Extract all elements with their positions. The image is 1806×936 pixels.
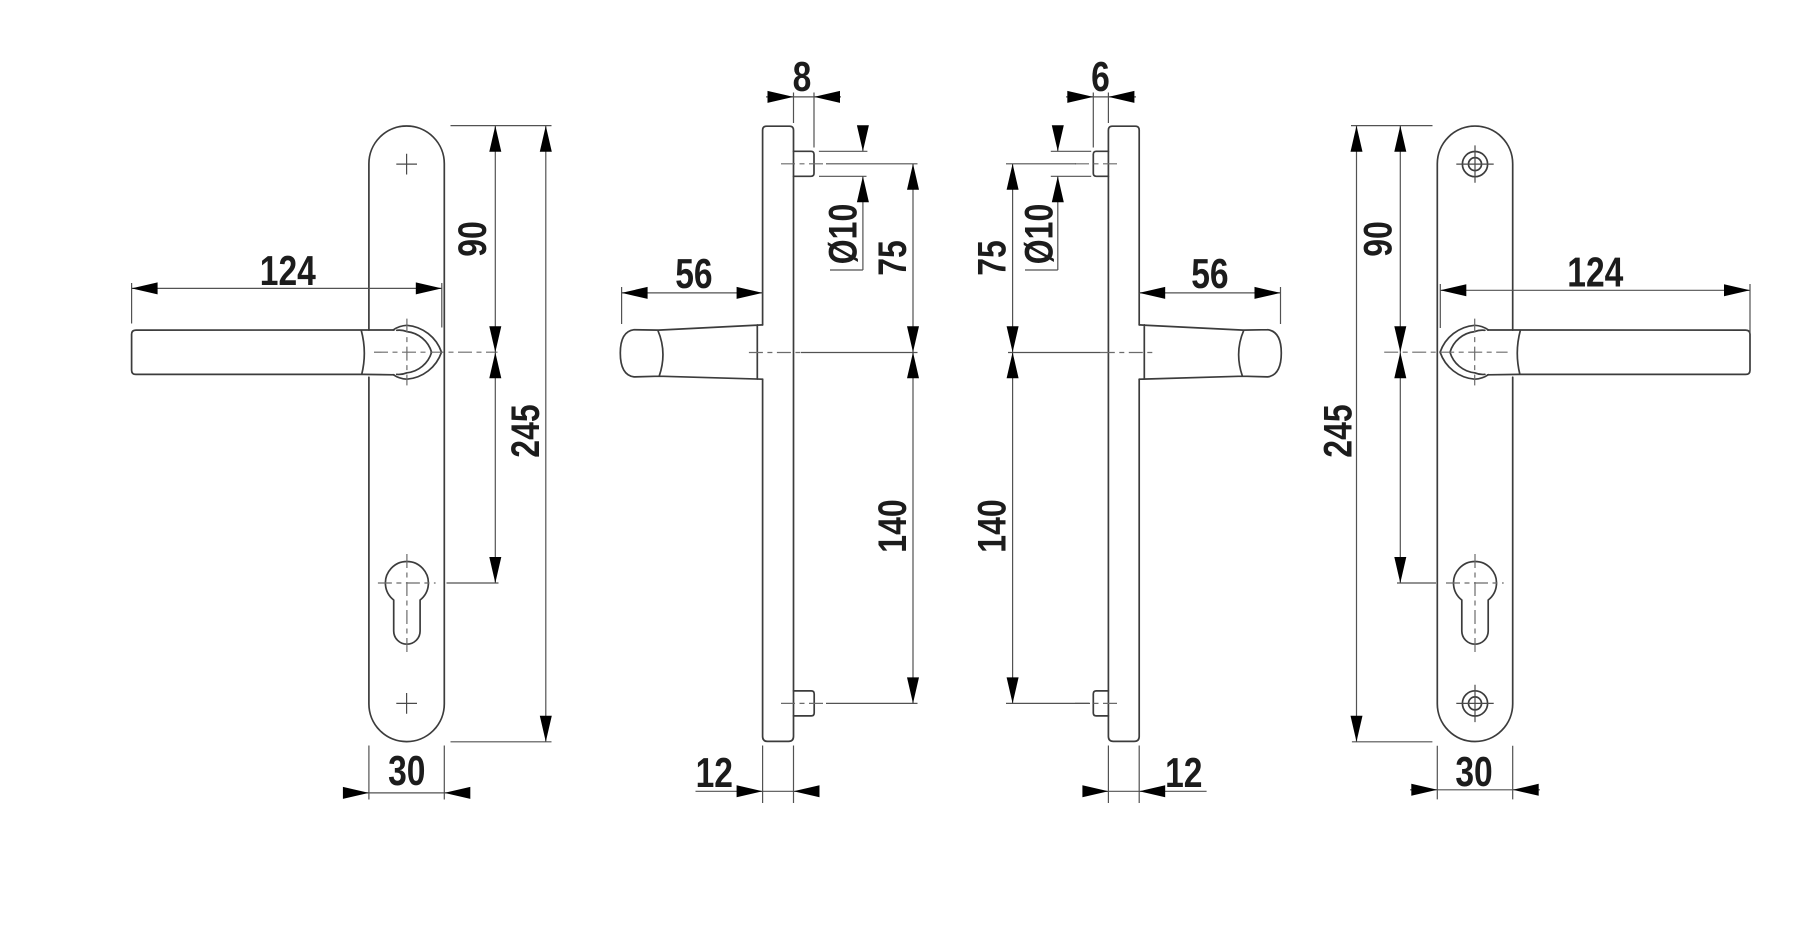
dimension 30 view 1: arrows: [343, 787, 369, 799]
dimension 6 view 3: arrows: [1067, 91, 1093, 103]
dimension 12 view 3: dim line: [1084, 790, 1207, 792]
dimension 90 view 4: arrows: [1394, 126, 1406, 152]
dimension 56 view 3: dim line: [1139, 292, 1280, 294]
keyhole horizontal centerline view 4: [1446, 582, 1504, 584]
keyhole vertical centerline view 4: [1474, 554, 1476, 655]
dimension 8 view 2: dim line: [766, 96, 841, 98]
dimension 12 view 2: arrows: [737, 785, 763, 797]
lower stud connector to 140 dim view 3: [1006, 702, 1090, 704]
dimension diameter 10 view 3: dim line: [1025, 127, 1058, 270]
dimension 90 view 4: top extension line: [1351, 125, 1433, 127]
dimension 56 view 2: extension line: [621, 287, 623, 324]
svg-text:124: 124: [260, 247, 317, 294]
dimension 245 view 1: dim line: [545, 126, 547, 742]
lever handle view 1: [132, 330, 394, 375]
svg-text:90: 90: [451, 221, 495, 257]
dimension 245 view 4: dim line: [1356, 126, 1358, 742]
dimension 245 view 4: bottom extension line: [1352, 741, 1433, 743]
dimension 30 view 1: extension lines: [369, 746, 444, 800]
dimension 90 view 4: keyhole connector line: [1397, 582, 1436, 584]
handle hub outer view 1: [393, 325, 441, 379]
svg-text:56: 56: [675, 250, 712, 297]
dimension 8 view 2: arrows: [768, 91, 794, 103]
keyhole horizontal centerline view 1: [378, 582, 436, 584]
handle hub inner view 1: [397, 330, 432, 374]
lower stud centerline view 3: [1075, 702, 1121, 704]
dimension diameter 10 view 2: arrows: [857, 125, 869, 151]
dimension 12 view 3: arrows: [1082, 785, 1108, 797]
dimension 75 view 3: arrows: [1007, 164, 1019, 190]
lower stud connector to 140 dim view 2: [826, 702, 918, 704]
svg-text:8: 8: [793, 53, 812, 100]
svg-text:245: 245: [504, 404, 548, 457]
dimension 245 view 1: arrows: [540, 126, 552, 152]
screw top view 4: [1456, 145, 1493, 182]
dimension diameter 10 view 2: extension lines: [819, 151, 868, 176]
backplate outline view 4: [1437, 126, 1512, 741]
svg-text:12: 12: [1165, 749, 1202, 796]
upper stud 8mm view 2: [794, 151, 815, 176]
screw cross top view 1: [396, 154, 417, 175]
handle centerline view 2: [749, 352, 801, 354]
svg-text:Ø10: Ø10: [821, 204, 865, 264]
screw bottom view 4: [1456, 685, 1493, 722]
dimension 6 view 3: dim line: [1066, 96, 1136, 98]
dimension 56 view 2: dim line: [622, 292, 763, 294]
handle centerline view 3: [1101, 352, 1153, 354]
svg-text:56: 56: [1191, 250, 1228, 297]
dimension 140 view 3: arrows: [1007, 352, 1019, 378]
hub horizontal centerline view 1: [374, 351, 498, 353]
hub horizontal centerline view 4: [1384, 351, 1507, 353]
svg-text:140: 140: [871, 499, 915, 552]
upper stud connector to 75 dim view 2: [826, 163, 918, 165]
backplate side outline view 2: [763, 126, 794, 741]
dimension 124 view 1: arrows: [132, 282, 158, 294]
dimension 12 view 3: extension lines: [1108, 746, 1139, 804]
svg-text:30: 30: [1455, 748, 1492, 795]
dimension 124 view 1: extension lines: [132, 283, 442, 328]
dimension 90 view 1: dim line: [494, 126, 496, 583]
dimension 30 view 4: dim line: [1410, 789, 1540, 791]
dimension 90 view 1: top extension line: [451, 125, 552, 127]
dimension 6 view 3: extension lines: [1093, 93, 1108, 148]
dimension 8 view 2: extension lines: [794, 93, 815, 148]
dimension 90 view 4: dim line: [1399, 126, 1401, 583]
grip side view 2: [620, 325, 762, 379]
dimension 56 view 3: extension line: [1280, 287, 1282, 324]
dimension 30 view 1: dim line: [344, 792, 470, 794]
svg-text:245: 245: [1316, 404, 1360, 457]
backplate outline view 1: [369, 126, 444, 742]
dimension 124 view 4: arrows: [1440, 284, 1466, 296]
svg-text:90: 90: [1356, 221, 1400, 257]
dimension 90 view 1: arrows: [489, 126, 501, 152]
dimension 140 view 2: arrows: [907, 352, 919, 378]
keyhole view 1: [385, 562, 428, 645]
dimension 75 and 140 view 3: shared dim line: [1012, 164, 1014, 704]
svg-text:140: 140: [970, 499, 1014, 552]
lower stud view 2: [794, 691, 815, 716]
svg-text:75: 75: [871, 240, 915, 276]
dimension 12 view 2: dim line: [696, 790, 819, 792]
svg-text:124: 124: [1567, 249, 1624, 296]
keyhole vertical centerline view 1: [406, 554, 408, 655]
dimension 30 view 4: arrows: [1411, 784, 1437, 796]
lower stud view 3: [1093, 691, 1108, 716]
dimension 56 view 2: arrows: [622, 287, 648, 299]
svg-text:12: 12: [696, 749, 733, 796]
lower stud centerline view 2: [781, 702, 827, 704]
dimension 12 view 2: extension lines: [763, 746, 794, 804]
handle hub inner view 4: [1450, 330, 1485, 374]
dimension 56 view 3: arrows: [1139, 287, 1165, 299]
dimension diameter 10 view 3: arrows: [1052, 125, 1064, 151]
dimension diameter 10 view 3: extension lines: [1051, 151, 1091, 176]
dimension 124 view 4: dim line: [1440, 289, 1750, 291]
screw cross bottom view 1: [396, 693, 417, 714]
keyhole view 4: [1454, 562, 1497, 645]
dimension 75 view 2: arrows: [907, 164, 919, 190]
dimension 75 and 140 view 2: shared dim line: [912, 164, 914, 704]
upper stud 6mm view 3: [1093, 151, 1108, 176]
svg-text:75: 75: [971, 240, 1015, 276]
upper stud connector to 75 dim view 3: [1006, 163, 1076, 165]
backplate side outline view 3: [1108, 126, 1139, 741]
lever handle view 4: [1488, 330, 1750, 375]
dimension 90 view 1: keyhole connector line: [447, 582, 499, 584]
svg-text:30: 30: [388, 747, 425, 794]
hub vertical centerline view 4: [1474, 319, 1476, 386]
upper stud centerline view 2: [781, 163, 827, 165]
dimension 30 view 4: extension lines: [1437, 746, 1512, 800]
upper stud centerline view 3: [1075, 163, 1121, 165]
dimension 245 view 4: arrows: [1351, 126, 1363, 152]
dimension 124 view 1: dim line: [132, 287, 442, 289]
dimension 124 view 4: extension lines: [1440, 284, 1750, 333]
dimension 245 view 1: bottom extension line: [451, 741, 552, 743]
dimension diameter 10 view 2: dim line: [830, 127, 863, 270]
handle hub outer view 4: [1440, 325, 1488, 379]
hub vertical centerline view 1: [406, 319, 408, 386]
svg-text:6: 6: [1091, 53, 1110, 100]
svg-text:Ø10: Ø10: [1017, 204, 1061, 264]
grip side view 3: [1139, 325, 1281, 379]
